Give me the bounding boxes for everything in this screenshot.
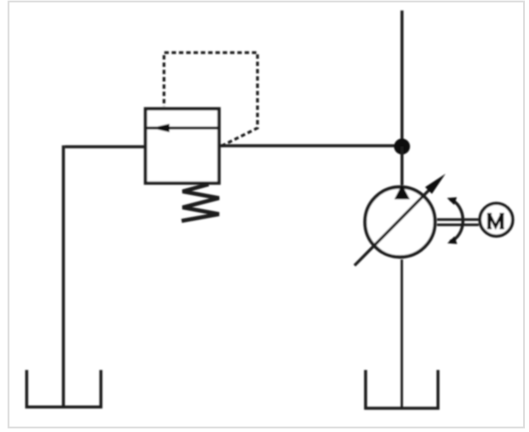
wire: valve left port horizontal (65, 145, 146, 148)
tank T2 (366, 370, 438, 408)
wire: pump suction to tank T2 (401, 260, 403, 409)
pump flow triangle (394, 185, 410, 200)
variable displacement arrowhead (425, 174, 445, 194)
wire: valve outlet to junction (219, 144, 402, 147)
relief valve V1 body (146, 109, 220, 183)
valve flow path line (146, 127, 220, 130)
wire: left return line vertical (62, 145, 65, 407)
pilot line (dashed) (164, 53, 258, 146)
wire: supply line top vertical (401, 11, 404, 147)
rotation arrow arc (450, 200, 463, 242)
motor label M (487, 214, 504, 229)
pump P1 circle (365, 187, 435, 257)
variable displacement arrow line (355, 181, 439, 266)
drive shaft upper line (437, 218, 479, 221)
motor M1 circle (480, 203, 513, 236)
valve flow arrowhead (151, 124, 170, 132)
wire: junction to pump inlet (401, 147, 404, 186)
spring (182, 184, 219, 221)
rotation arrow bottom head (447, 236, 457, 244)
node: junction (394, 139, 410, 155)
tank T1 (27, 370, 101, 407)
rotation arrow top head (447, 197, 457, 205)
drive shaft lower line (437, 224, 479, 227)
